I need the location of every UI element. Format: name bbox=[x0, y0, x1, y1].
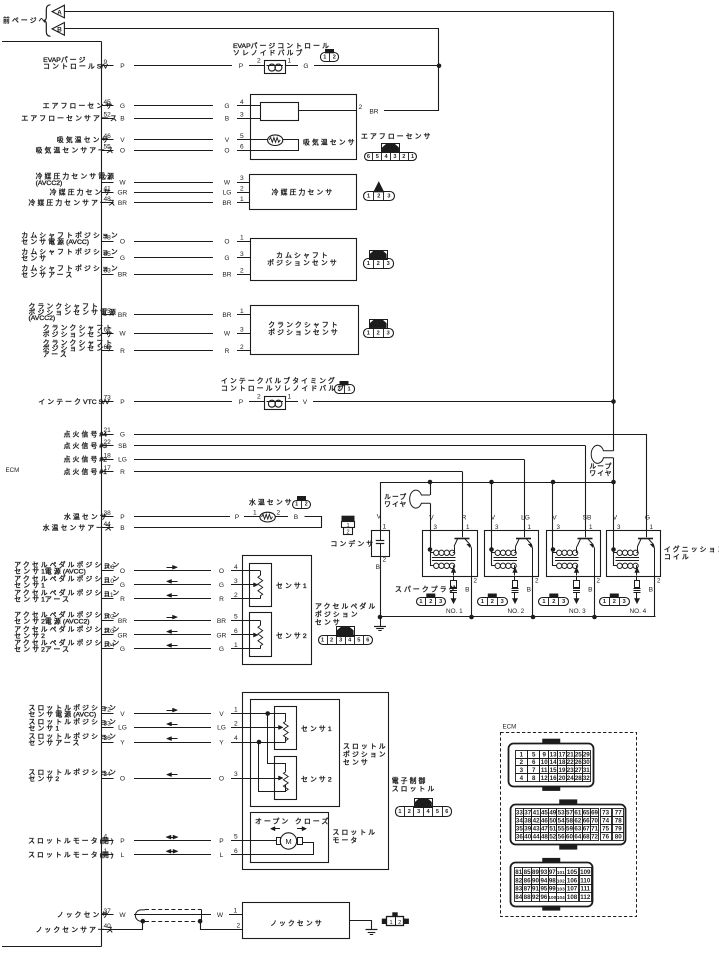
svg-text:52: 52 bbox=[104, 111, 112, 118]
loop wire on A drop bbox=[591, 445, 613, 463]
svg-text:スロットル: スロットル bbox=[333, 829, 378, 837]
connector accelerator pedal 6-pin bbox=[337, 627, 355, 637]
svg-text:G: G bbox=[219, 646, 224, 653]
svg-text:センサ1: センサ1 bbox=[14, 582, 45, 590]
ignition V bus bbox=[380, 482, 614, 484]
svg-text:センサ電源(AVCC): センサ電源(AVCC) bbox=[21, 237, 89, 246]
svg-text:40: 40 bbox=[524, 834, 531, 841]
device pin 1 bbox=[237, 314, 250, 316]
svg-text:2: 2 bbox=[359, 104, 363, 111]
svg-text:W: W bbox=[119, 912, 126, 919]
wire bbox=[134, 182, 213, 184]
ECM pin 52 stub bbox=[102, 118, 114, 120]
wire bbox=[134, 333, 213, 335]
svg-text:3: 3 bbox=[387, 194, 390, 200]
svg-text:V: V bbox=[219, 711, 224, 718]
svg-text:BR: BR bbox=[217, 618, 226, 625]
svg-text:スロットル: スロットル bbox=[343, 743, 388, 751]
connector air flow sensor 6-pin bbox=[382, 144, 400, 153]
svg-text:111: 111 bbox=[104, 592, 114, 599]
svg-text:P: P bbox=[120, 63, 125, 70]
V drop to coil4 bbox=[613, 482, 615, 531]
electronic throttle outer box bbox=[243, 693, 389, 870]
svg-text:インテークVTC S/V: インテークVTC S/V bbox=[38, 398, 110, 406]
svg-text:21: 21 bbox=[567, 751, 574, 758]
svg-text:5: 5 bbox=[234, 614, 238, 621]
svg-text:1: 1 bbox=[419, 599, 422, 605]
svg-text:75: 75 bbox=[602, 826, 609, 833]
svg-text:74: 74 bbox=[104, 175, 112, 182]
svg-text:1: 1 bbox=[398, 809, 401, 815]
ECM pin 17 stub bbox=[102, 471, 114, 473]
svg-text:32: 32 bbox=[583, 775, 590, 782]
coil1 secondary winding bbox=[430, 565, 434, 567]
svg-text:インテークバルブタイミング: インテークバルブタイミング bbox=[221, 376, 337, 385]
svg-text:ループ: ループ bbox=[384, 493, 407, 501]
svg-text:64: 64 bbox=[574, 834, 581, 841]
V bus feeds coil2 bbox=[489, 480, 494, 485]
svg-text:44: 44 bbox=[533, 834, 540, 841]
svg-text:1: 1 bbox=[321, 638, 324, 644]
TPS sensor2 potentiometer bbox=[283, 772, 288, 791]
coil4 primary supply bbox=[613, 531, 615, 566]
svg-text:13: 13 bbox=[550, 751, 557, 758]
svg-text:ポジションセンサ: ポジションセンサ bbox=[267, 259, 339, 267]
wire bbox=[134, 727, 211, 729]
svg-text:センサ1: センサ1 bbox=[301, 725, 332, 733]
ignition coil no.2 box bbox=[485, 531, 539, 577]
pin3 lead bbox=[250, 118, 260, 120]
shield bbox=[135, 910, 145, 921]
wire B vertical drop bbox=[438, 29, 440, 111]
V bus feeds coil1 through loop wire bbox=[428, 480, 433, 485]
wire bbox=[134, 401, 232, 403]
svg-text:3: 3 bbox=[240, 175, 244, 182]
wire loops back to ground pin bbox=[211, 517, 322, 528]
connector EVAP solenoid 2-pin bbox=[325, 49, 334, 53]
svg-text:1: 1 bbox=[234, 908, 238, 915]
svg-text:センサ2: センサ2 bbox=[276, 632, 307, 640]
svg-text:R: R bbox=[225, 348, 230, 355]
throttle motor box bbox=[251, 813, 329, 863]
svg-text:2: 2 bbox=[330, 638, 333, 644]
svg-text:5: 5 bbox=[376, 154, 379, 160]
knock sensor box bbox=[243, 903, 350, 939]
svg-text:クローズ: クローズ bbox=[295, 817, 330, 826]
coil2 primary winding bbox=[492, 552, 496, 554]
svg-text:34: 34 bbox=[104, 771, 112, 778]
svg-text:アース: アース bbox=[43, 350, 69, 358]
accelerator pedal sensor box bbox=[243, 556, 312, 665]
junction on B supply bbox=[437, 64, 442, 69]
svg-text:V: V bbox=[552, 515, 557, 522]
ECM pin 104 stub bbox=[102, 648, 114, 650]
svg-text:2: 2 bbox=[408, 809, 411, 815]
svg-text:103: 103 bbox=[104, 628, 115, 635]
ignition coil no.4 box bbox=[607, 531, 661, 577]
svg-text:1: 1 bbox=[367, 330, 370, 336]
svg-text:1: 1 bbox=[389, 920, 392, 926]
ground symbol ignition bbox=[380, 617, 382, 626]
svg-text:SB: SB bbox=[118, 443, 127, 450]
device pin 3 bbox=[237, 182, 250, 184]
svg-text:B: B bbox=[376, 564, 381, 571]
svg-text:1: 1 bbox=[520, 751, 524, 758]
svg-text:O: O bbox=[120, 775, 125, 782]
svg-text:LG: LG bbox=[223, 190, 232, 197]
svg-text:W: W bbox=[224, 331, 231, 338]
svg-text:1: 1 bbox=[347, 387, 350, 393]
svg-text:54: 54 bbox=[558, 817, 565, 824]
svg-text:78: 78 bbox=[104, 234, 112, 241]
svg-text:2: 2 bbox=[240, 344, 244, 351]
svg-text:65: 65 bbox=[104, 251, 112, 258]
ECM pin 72 stub bbox=[102, 713, 114, 715]
svg-text:36: 36 bbox=[516, 834, 523, 841]
connector shell tabs bbox=[542, 739, 560, 744]
svg-text:センサ: センサ bbox=[343, 759, 370, 767]
ECM pin 78 stub bbox=[102, 241, 114, 243]
coil1 core bbox=[432, 557, 456, 559]
svg-text:2: 2 bbox=[333, 55, 336, 61]
svg-text:11: 11 bbox=[541, 767, 548, 774]
svg-text:スロットル: スロットル bbox=[392, 785, 437, 793]
ECM pin 36 stub bbox=[102, 742, 114, 744]
svg-text:3: 3 bbox=[501, 599, 504, 605]
svg-text:B: B bbox=[294, 514, 299, 521]
pedal sensor2 potentiometer bbox=[258, 626, 263, 646]
ECM pin 46 stub bbox=[102, 139, 114, 141]
ECM pin 40 stub bbox=[102, 929, 114, 931]
svg-text:L: L bbox=[220, 852, 224, 859]
ignition signal vertical LG bbox=[524, 459, 526, 531]
svg-text:スロットルモータ(閉): スロットルモータ(閉) bbox=[28, 836, 113, 845]
svg-text:2: 2 bbox=[377, 261, 380, 267]
svg-text:2: 2 bbox=[346, 530, 349, 536]
ECM pin 4 stub bbox=[102, 840, 114, 842]
svg-text:3: 3 bbox=[393, 154, 396, 160]
svg-text:V: V bbox=[491, 515, 496, 522]
connector shell bbox=[509, 744, 594, 787]
svg-text:センサ2電源(AVCC2): センサ2電源(AVCC2) bbox=[14, 616, 89, 625]
svg-text:27: 27 bbox=[575, 767, 582, 774]
svg-text:88: 88 bbox=[524, 894, 531, 901]
ignition coil no.3 box bbox=[547, 531, 601, 577]
svg-text:61: 61 bbox=[574, 809, 581, 816]
svg-text:点火信号#1: 点火信号#1 bbox=[64, 467, 108, 476]
svg-text:G: G bbox=[219, 582, 224, 589]
svg-text:51: 51 bbox=[549, 826, 556, 833]
svg-text:P: P bbox=[235, 514, 240, 521]
svg-text:3: 3 bbox=[617, 524, 621, 531]
svg-text:104: 104 bbox=[557, 895, 565, 900]
svg-text:3: 3 bbox=[562, 599, 565, 605]
knock sensor wire W bbox=[134, 914, 211, 916]
ECM pin 74 stub bbox=[102, 182, 114, 184]
svg-text:P: P bbox=[120, 399, 125, 406]
svg-text:BR: BR bbox=[118, 312, 127, 319]
svg-text:95: 95 bbox=[540, 886, 547, 893]
svg-text:W: W bbox=[217, 912, 224, 919]
svg-text:1: 1 bbox=[240, 234, 244, 241]
svg-text:38: 38 bbox=[104, 510, 112, 517]
svg-text:W: W bbox=[224, 179, 231, 186]
ECM pin 38 stub bbox=[102, 516, 114, 518]
pin4 lead bbox=[250, 105, 260, 107]
pedal sensor1 box bbox=[250, 564, 272, 607]
svg-text:G: G bbox=[120, 431, 125, 438]
svg-text:106: 106 bbox=[104, 564, 115, 571]
svg-text:25: 25 bbox=[575, 751, 582, 758]
wire bbox=[134, 105, 213, 107]
pedal sensor1 wiper bbox=[243, 584, 254, 586]
pedal sensor2 box bbox=[250, 613, 272, 657]
svg-text:46: 46 bbox=[104, 133, 112, 140]
svg-text:6: 6 bbox=[367, 154, 370, 160]
connector condenser bbox=[342, 516, 355, 522]
svg-text:V: V bbox=[120, 711, 125, 718]
wire bbox=[134, 274, 213, 276]
svg-text:18: 18 bbox=[104, 453, 112, 460]
svg-text:エアフローセンサ: エアフローセンサ bbox=[361, 133, 433, 141]
svg-text:3: 3 bbox=[387, 261, 390, 267]
svg-text:LG: LG bbox=[217, 725, 226, 732]
spark plug connector no.2 bbox=[488, 594, 497, 598]
svg-text:50: 50 bbox=[549, 817, 556, 824]
svg-text:81: 81 bbox=[515, 869, 522, 876]
ECM pin 37 stub bbox=[102, 914, 114, 916]
svg-text:42: 42 bbox=[533, 817, 540, 824]
off-page arrow A bbox=[52, 5, 64, 18]
svg-text:BR: BR bbox=[118, 618, 127, 625]
svg-text:1: 1 bbox=[104, 848, 108, 855]
svg-text:SB: SB bbox=[583, 515, 592, 522]
svg-text:33: 33 bbox=[516, 809, 523, 816]
svg-text:1: 1 bbox=[234, 642, 238, 649]
coil1 spark gap arrow bbox=[453, 566, 455, 576]
device pin 2 bbox=[237, 350, 250, 352]
svg-text:62: 62 bbox=[104, 344, 112, 351]
pedal sensor2 wiper bbox=[243, 634, 254, 636]
svg-text:103: 103 bbox=[557, 887, 565, 892]
svg-text:1: 1 bbox=[528, 524, 532, 531]
pedal sensor1 potentiometer bbox=[258, 576, 263, 596]
svg-text:NO. 4: NO. 4 bbox=[630, 608, 647, 615]
svg-text:P: P bbox=[239, 399, 244, 406]
svg-text:3: 3 bbox=[240, 111, 244, 118]
wire V to node A bbox=[313, 401, 614, 403]
coil4 spark gap arrow bbox=[636, 566, 638, 576]
condenser to ground bus bbox=[380, 556, 382, 617]
svg-text:57: 57 bbox=[566, 809, 573, 816]
svg-text:86: 86 bbox=[524, 877, 531, 884]
svg-text:GR: GR bbox=[118, 632, 128, 639]
ECM pin 110 stub bbox=[102, 584, 114, 586]
svg-text:センサ1電源(AVCC): センサ1電源(AVCC) bbox=[14, 567, 85, 576]
svg-text:3: 3 bbox=[520, 767, 524, 774]
svg-text:102: 102 bbox=[557, 878, 565, 883]
svg-text:5: 5 bbox=[436, 809, 439, 815]
svg-text:87: 87 bbox=[524, 886, 531, 893]
svg-text:110: 110 bbox=[580, 877, 591, 884]
refrigerant pressure sensor box bbox=[250, 175, 357, 210]
svg-text:55: 55 bbox=[104, 144, 112, 151]
coil3 primary supply bbox=[552, 531, 554, 566]
ignition coil no.1 box bbox=[423, 531, 478, 577]
coil2 spark plug bbox=[514, 576, 516, 581]
svg-text:69: 69 bbox=[591, 809, 598, 816]
svg-text:73: 73 bbox=[602, 809, 609, 816]
svg-text:B: B bbox=[588, 587, 593, 594]
ECM pin 41 stub bbox=[102, 192, 114, 194]
svg-text:2: 2 bbox=[377, 194, 380, 200]
svg-text:1: 1 bbox=[367, 261, 370, 267]
svg-text:33: 33 bbox=[104, 721, 112, 728]
wire G to node B bbox=[314, 65, 439, 67]
close arrow bbox=[297, 828, 306, 830]
svg-text:NO. 3: NO. 3 bbox=[569, 608, 586, 615]
wire bbox=[134, 620, 211, 622]
coil4 core bbox=[616, 557, 640, 559]
wire from B to EVAP/airflow supply bbox=[64, 28, 439, 30]
TPS sensor2 box bbox=[275, 757, 297, 800]
svg-text:1: 1 bbox=[234, 707, 238, 714]
wire V bus to condenser bbox=[380, 482, 382, 531]
ignition signal vertical G bbox=[646, 434, 648, 531]
svg-text:47: 47 bbox=[541, 826, 548, 833]
svg-text:56: 56 bbox=[558, 834, 565, 841]
svg-text:2: 2 bbox=[383, 557, 387, 564]
coil4 secondary winding bbox=[614, 565, 618, 567]
svg-text:2: 2 bbox=[237, 923, 241, 930]
device pin 2 bbox=[237, 274, 250, 276]
connector pin grid bbox=[516, 809, 524, 817]
svg-text:5: 5 bbox=[532, 751, 536, 758]
svg-text:EVAPパージコントロール: EVAPパージコントロール bbox=[233, 42, 331, 50]
svg-text:5: 5 bbox=[240, 133, 244, 140]
wire bbox=[134, 118, 213, 120]
svg-text:2: 2 bbox=[474, 578, 478, 585]
svg-text:カムシャフト: カムシャフト bbox=[276, 252, 330, 260]
TPS sensor1 box bbox=[275, 707, 297, 750]
svg-text:1: 1 bbox=[383, 524, 387, 531]
svg-text:45: 45 bbox=[104, 99, 112, 106]
svg-text:21: 21 bbox=[104, 427, 112, 434]
svg-text:B: B bbox=[120, 115, 125, 122]
svg-text:63: 63 bbox=[104, 267, 112, 274]
svg-text:109: 109 bbox=[580, 869, 591, 876]
svg-text:1: 1 bbox=[240, 196, 244, 203]
svg-text:94: 94 bbox=[540, 877, 547, 884]
wire bbox=[134, 350, 213, 352]
wire bbox=[134, 840, 211, 842]
svg-text:アクセルペダル: アクセルペダル bbox=[315, 602, 377, 611]
svg-text:G: G bbox=[224, 255, 229, 262]
coil2 secondary winding bbox=[492, 565, 496, 567]
svg-text:点火信号#3: 点火信号#3 bbox=[64, 441, 108, 450]
svg-text:センサ電源(AVCC): センサ電源(AVCC) bbox=[29, 709, 97, 718]
TPS sensor1 wiper bbox=[242, 727, 278, 729]
svg-text:R: R bbox=[120, 596, 125, 603]
coil4 spark plug bbox=[636, 576, 638, 581]
svg-text:67: 67 bbox=[583, 826, 590, 833]
wire from A to ignition/VTC supply bbox=[64, 11, 613, 13]
svg-text:センサ1アース: センサ1アース bbox=[14, 596, 71, 604]
svg-text:B: B bbox=[527, 587, 532, 594]
svg-text:29: 29 bbox=[583, 751, 590, 758]
svg-text:39: 39 bbox=[524, 826, 531, 833]
svg-text:2: 2 bbox=[234, 721, 238, 728]
ignition signal wire R bbox=[134, 471, 463, 473]
connector pin grid bbox=[516, 751, 528, 759]
TPS wiring pin4 bbox=[242, 742, 286, 744]
wire A vertical drop at right bbox=[613, 12, 615, 402]
svg-text:16: 16 bbox=[550, 775, 557, 782]
connector water temp sensor 2-pin bbox=[297, 496, 306, 500]
svg-text:74: 74 bbox=[602, 817, 609, 824]
connector knock sensor bbox=[392, 912, 397, 917]
svg-text:センサ1: センサ1 bbox=[276, 582, 307, 590]
svg-text:24: 24 bbox=[567, 775, 574, 782]
device pin 1 bbox=[237, 202, 250, 204]
svg-text:2: 2 bbox=[613, 599, 616, 605]
ECM pin 34 stub bbox=[102, 778, 114, 780]
svg-text:G: G bbox=[120, 582, 125, 589]
svg-text:BR: BR bbox=[369, 108, 378, 115]
svg-text:2: 2 bbox=[277, 510, 281, 517]
svg-text:(AVCC2): (AVCC2) bbox=[36, 180, 63, 187]
camshaft position sensor box bbox=[251, 239, 357, 281]
svg-text:72: 72 bbox=[591, 834, 598, 841]
crankshaft position sensor box bbox=[251, 306, 359, 355]
ignition signal vertical R bbox=[462, 472, 464, 531]
svg-text:G: G bbox=[645, 515, 650, 522]
svg-text:A: A bbox=[57, 9, 62, 16]
wire bbox=[134, 257, 213, 259]
ECM pin 111 stub bbox=[102, 598, 114, 600]
coil3 power transistor bbox=[585, 531, 587, 537]
svg-text:1: 1 bbox=[589, 524, 593, 531]
svg-text:BR: BR bbox=[222, 272, 231, 279]
svg-text:4: 4 bbox=[240, 99, 244, 106]
svg-text:19: 19 bbox=[559, 767, 566, 774]
svg-text:2: 2 bbox=[240, 185, 244, 192]
svg-text:6: 6 bbox=[234, 628, 238, 635]
wire bbox=[134, 65, 232, 67]
svg-text:66: 66 bbox=[583, 817, 590, 824]
svg-text:48: 48 bbox=[104, 196, 112, 203]
ignition ground bus bbox=[380, 616, 656, 618]
connector shell bbox=[511, 863, 593, 907]
device pin 4 bbox=[237, 105, 250, 107]
svg-text:2: 2 bbox=[337, 387, 340, 393]
coil2 core bbox=[494, 557, 518, 559]
svg-text:P: P bbox=[219, 838, 224, 845]
svg-text:83: 83 bbox=[515, 886, 522, 893]
svg-text:1: 1 bbox=[542, 599, 545, 605]
coil2 power transistor bbox=[524, 531, 526, 537]
svg-text:ポジションセンサ: ポジションセンサ bbox=[268, 329, 340, 337]
svg-text:73: 73 bbox=[104, 395, 112, 402]
water temp thermistor bbox=[244, 516, 260, 518]
svg-text:104: 104 bbox=[104, 642, 115, 649]
coil4 power transistor bbox=[646, 531, 648, 537]
svg-text:92: 92 bbox=[532, 894, 539, 901]
svg-text:O: O bbox=[224, 239, 229, 246]
motor bbox=[280, 833, 296, 849]
coil1 primary winding bbox=[430, 552, 434, 554]
wire bbox=[134, 713, 211, 715]
